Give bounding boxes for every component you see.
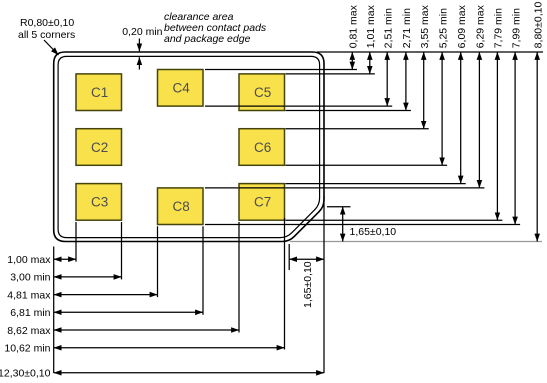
svg-text:10,62 min: 10,62 min <box>4 343 50 355</box>
dimension 6,09 max arrow <box>456 4 468 183</box>
svg-text:C7: C7 <box>254 195 271 210</box>
svg-text:C8: C8 <box>173 199 190 214</box>
svg-text:and package edge: and package edge <box>164 33 251 45</box>
svg-text:C3: C3 <box>91 195 108 210</box>
svg-text:6,29 max: 6,29 max <box>475 4 487 48</box>
extension line package left edge (vertical) <box>53 247 55 374</box>
svg-text:0,20 min: 0,20 min <box>122 26 162 38</box>
pad C8 <box>158 188 204 225</box>
extension line C7 left (vertical) <box>238 222 240 333</box>
pad C3 <box>76 184 122 221</box>
extension line C4 top <box>205 69 357 71</box>
dimension 0,20 min upper arrow <box>138 39 140 52</box>
svg-text:C4: C4 <box>173 81 191 96</box>
svg-text:6,09 max: 6,09 max <box>456 4 468 48</box>
extension line C3 left (vertical) <box>75 222 77 262</box>
dimension 10,62 min <box>4 343 284 355</box>
dimension 8,80±0,10 arrow <box>532 2 544 242</box>
svg-text:1,01 max: 1,01 max <box>365 4 377 48</box>
svg-text:R0,80±0,10: R0,80±0,10 <box>20 17 74 29</box>
svg-text:4,81 max: 4,81 max <box>7 289 51 301</box>
svg-text:C1: C1 <box>91 85 108 100</box>
dimension 2,71 min arrow <box>401 8 413 111</box>
svg-text:1,00 max: 1,00 max <box>7 254 51 266</box>
extension line C7 top <box>286 183 466 185</box>
package outline outer edge <box>54 52 324 242</box>
svg-text:7,79 min: 7,79 min <box>493 8 505 48</box>
extension line C8 top <box>205 187 484 189</box>
extension line C3 right (vertical) <box>121 222 123 279</box>
dimension 1,65±0,10 bottom horizontal arrow (rotated label) <box>289 259 324 308</box>
extension line C4 bottom <box>205 105 392 107</box>
extension line across pad C7 for C8 top <box>239 187 285 189</box>
svg-text:all 5 corners: all 5 corners <box>18 29 75 41</box>
clearance area inner line <box>58 56 320 237</box>
extension line C6 top <box>286 128 429 130</box>
svg-text:8,62 max: 8,62 max <box>7 325 51 337</box>
pad C7 <box>239 184 285 221</box>
extension line across pad C5 for C4 bottom <box>239 105 285 107</box>
svg-text:1,65±0,10: 1,65±0,10 <box>302 261 314 308</box>
dimension 0,20 min lower arrow <box>138 57 140 69</box>
svg-text:6,81 min: 6,81 min <box>10 307 50 319</box>
svg-text:2,51 min: 2,51 min <box>382 8 394 48</box>
extension line C5 bottom <box>286 110 411 112</box>
svg-text:8,80±0,10: 8,80±0,10 <box>532 2 544 49</box>
svg-text:1,65±0,10: 1,65±0,10 <box>350 226 397 238</box>
extension line package bottom (gray) <box>290 241 542 243</box>
svg-text:C6: C6 <box>254 140 271 155</box>
top edge reference extension line <box>317 51 543 53</box>
dimension 2,51 min arrow <box>382 8 394 106</box>
pad C5 <box>239 74 285 111</box>
svg-text:3,55 max: 3,55 max <box>419 4 431 48</box>
dimension 6,29 max arrow <box>475 4 487 188</box>
extension line C5 top <box>286 73 375 75</box>
extension line chamfer start bottom (vertical) <box>288 244 290 270</box>
pad C1 <box>76 74 122 111</box>
extension line C7 right (vertical) <box>284 218 286 350</box>
dimension 6,81 min <box>10 307 203 319</box>
extension line C8 right (vertical) <box>202 226 204 314</box>
dimension 5,25 min arrow <box>437 8 449 165</box>
extension line C7 bottom <box>286 219 503 221</box>
dimension 1,01 max arrow <box>365 4 377 74</box>
dimension 8,62 max <box>7 325 239 337</box>
dimension 0,81 max arrow <box>348 4 360 69</box>
svg-text:0,81 max: 0,81 max <box>348 4 360 48</box>
dimension 3,55 max arrow <box>419 4 431 128</box>
extension line package right edge (vertical) <box>323 196 325 373</box>
extension line C6 bottom <box>286 164 448 166</box>
svg-text:12,30±0,10: 12,30±0,10 <box>0 368 51 380</box>
dimension 7,79 min arrow <box>493 8 505 220</box>
extension line C8 left (vertical) <box>157 226 159 297</box>
pad C6 <box>239 129 285 166</box>
dimension 1,65±0,10 right vertical arrow <box>343 207 397 242</box>
dimension 3,00 min <box>10 272 121 284</box>
dimension 4,81 max <box>7 289 157 301</box>
dimension 1,00 max <box>7 254 76 266</box>
pad C4 <box>158 70 204 107</box>
svg-text:C5: C5 <box>254 85 271 100</box>
svg-text:5,25 min: 5,25 min <box>437 8 449 48</box>
svg-text:2,71 min: 2,71 min <box>401 8 413 48</box>
svg-text:7,99 min: 7,99 min <box>510 8 522 48</box>
svg-text:C2: C2 <box>91 140 108 155</box>
dimension 12,30±0,10 <box>0 368 324 380</box>
extension line chamfer start right <box>327 206 351 208</box>
leader arrow to top-left corner <box>44 40 59 55</box>
svg-text:3,00 min: 3,00 min <box>10 272 50 284</box>
extension line C8 bottom <box>205 224 520 226</box>
dimension 7,99 min arrow <box>510 8 522 225</box>
pad C2 <box>76 129 122 166</box>
